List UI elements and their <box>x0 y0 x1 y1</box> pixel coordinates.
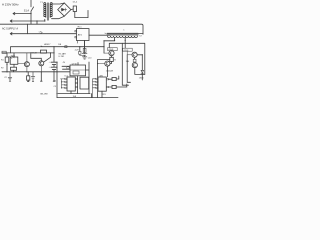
transistor Q3 <box>109 51 114 56</box>
svg-text:470Ω: 470Ω <box>123 50 128 52</box>
diode D5 <box>79 47 81 52</box>
switch tick DB <box>41 45 43 48</box>
transistor Q5 <box>105 61 110 66</box>
transistor Q6 <box>132 63 137 68</box>
wire x57 vertical <box>56 63 58 97</box>
LDR <box>10 57 18 64</box>
wire x96 vertical <box>98 59 110 97</box>
bus wire positive rail <box>0 24 143 34</box>
rail bottom mid <box>58 93 90 95</box>
svg-text:AC SUPPLY A: AC SUPPLY A <box>2 27 18 30</box>
label 470R a <box>108 48 118 51</box>
rail bottom <box>57 97 118 99</box>
pin 4 <box>96 87 98 88</box>
svg-text:U710: U710 <box>72 63 78 65</box>
fuse F1 <box>71 8 73 11</box>
resistor R8 <box>134 57 136 59</box>
battery GB1 <box>53 47 55 62</box>
wire U1 bottom <box>77 76 79 94</box>
resistor R2 <box>11 67 17 70</box>
wire T2 left tap <box>104 38 115 54</box>
wire bracket 2 <box>127 55 130 83</box>
label 470R b <box>123 48 133 51</box>
svg-text:4,2V: 4,2V <box>75 50 80 52</box>
thermistor TH1 <box>2 51 6 53</box>
wire R7 to Q5 <box>110 61 112 63</box>
resistor R5 <box>109 78 113 80</box>
pin 1 <box>96 78 98 79</box>
transformer T2 <box>107 33 138 35</box>
wire neutral branch <box>36 21 38 24</box>
pin 5 right <box>106 79 108 80</box>
rail left upper <box>2 52 54 54</box>
transistor Q2 <box>39 61 44 66</box>
capacitor C ground cluster <box>84 41 86 49</box>
wire secondary top <box>52 3 65 4</box>
diode D6 <box>141 70 144 73</box>
ground <box>82 57 86 59</box>
node dots rail <box>6 13 143 75</box>
wire bracket 1 <box>122 43 128 85</box>
fuse F2 on DB line <box>65 46 67 48</box>
transistor Q1 <box>24 62 29 67</box>
pin 5 right <box>75 78 77 79</box>
wire plug prong L <box>13 12 31 14</box>
wire T2 right to bus <box>138 32 143 34</box>
capacitor C2 <box>8 72 12 81</box>
wire U1 top stub <box>77 63 79 65</box>
pin 6 right <box>106 86 108 87</box>
svg-text:BC548: BC548 <box>30 52 37 54</box>
wire line DB <box>11 47 105 53</box>
pin 3 <box>65 84 67 85</box>
wire secondary bottom <box>52 16 65 19</box>
svg-text:HRM 7: HRM 7 <box>44 44 51 46</box>
wire loop right of IC1 <box>80 77 89 89</box>
wire Q4 right <box>137 54 142 56</box>
pin 7 right <box>75 86 77 87</box>
wire Q6 emitter <box>135 68 145 75</box>
IC2 <box>98 77 106 91</box>
svg-text:GB-1R8: GB-1R8 <box>40 93 48 95</box>
svg-text:1N4148: 1N4148 <box>106 71 114 73</box>
switch LP tick <box>41 32 43 33</box>
resistor R3 <box>41 50 47 53</box>
wire IC2 bottom stub <box>101 91 103 97</box>
wire IC1 bottom <box>70 91 72 94</box>
wire from fuse to reservoir <box>75 10 88 17</box>
wire U1 input <box>62 66 70 69</box>
pin 1 <box>65 78 67 79</box>
svg-text:470Ω: 470Ω <box>108 49 113 51</box>
node A <box>50 52 51 53</box>
node ball U1 input <box>67 67 70 70</box>
pin 3 <box>96 84 98 85</box>
rail left lower <box>2 71 70 73</box>
pin 6 right <box>75 82 77 83</box>
pin 2 <box>65 81 67 82</box>
wire relay to T2 <box>89 34 110 36</box>
wire plug prong N <box>10 20 45 22</box>
bridge rectifier D1-D4 <box>58 3 71 16</box>
node rail join <box>56 93 57 94</box>
transformer T1 <box>44 19 46 21</box>
pin 2 <box>96 81 98 82</box>
resistor R4 <box>27 72 29 76</box>
wire U1 output <box>86 62 90 94</box>
svg-text:H 230V 50Hz: H 230V 50Hz <box>2 3 19 7</box>
resistor R1 <box>6 53 8 57</box>
svg-text:U 2E1: U 2E1 <box>59 56 66 58</box>
wire pins left <box>61 79 65 88</box>
capacitor C3 <box>31 72 35 82</box>
wire relay bottom <box>84 41 86 53</box>
switch S1 <box>31 0 34 24</box>
wire plug prong E / LP line <box>10 33 76 35</box>
relay RL1 <box>77 29 90 41</box>
wire S1 branch to LP line <box>27 24 29 34</box>
transistor Q4 <box>132 52 137 57</box>
wire Q5 emitter to IC2 <box>106 66 108 77</box>
node IC1 pin bus <box>61 81 62 82</box>
IC1 <box>67 77 75 91</box>
resistor R7 <box>111 56 113 58</box>
wire T2 center tap <box>109 38 145 75</box>
resistor R6 <box>109 86 113 88</box>
wire pins left <box>93 79 96 98</box>
op-amp U1 <box>70 65 86 76</box>
pin 4 <box>65 87 67 88</box>
svg-text:S1 A: S1 A <box>24 10 30 13</box>
wire Q2 emitter down <box>41 72 43 81</box>
wire join rails <box>91 94 93 98</box>
svg-text:LDR: LDR <box>11 55 16 57</box>
